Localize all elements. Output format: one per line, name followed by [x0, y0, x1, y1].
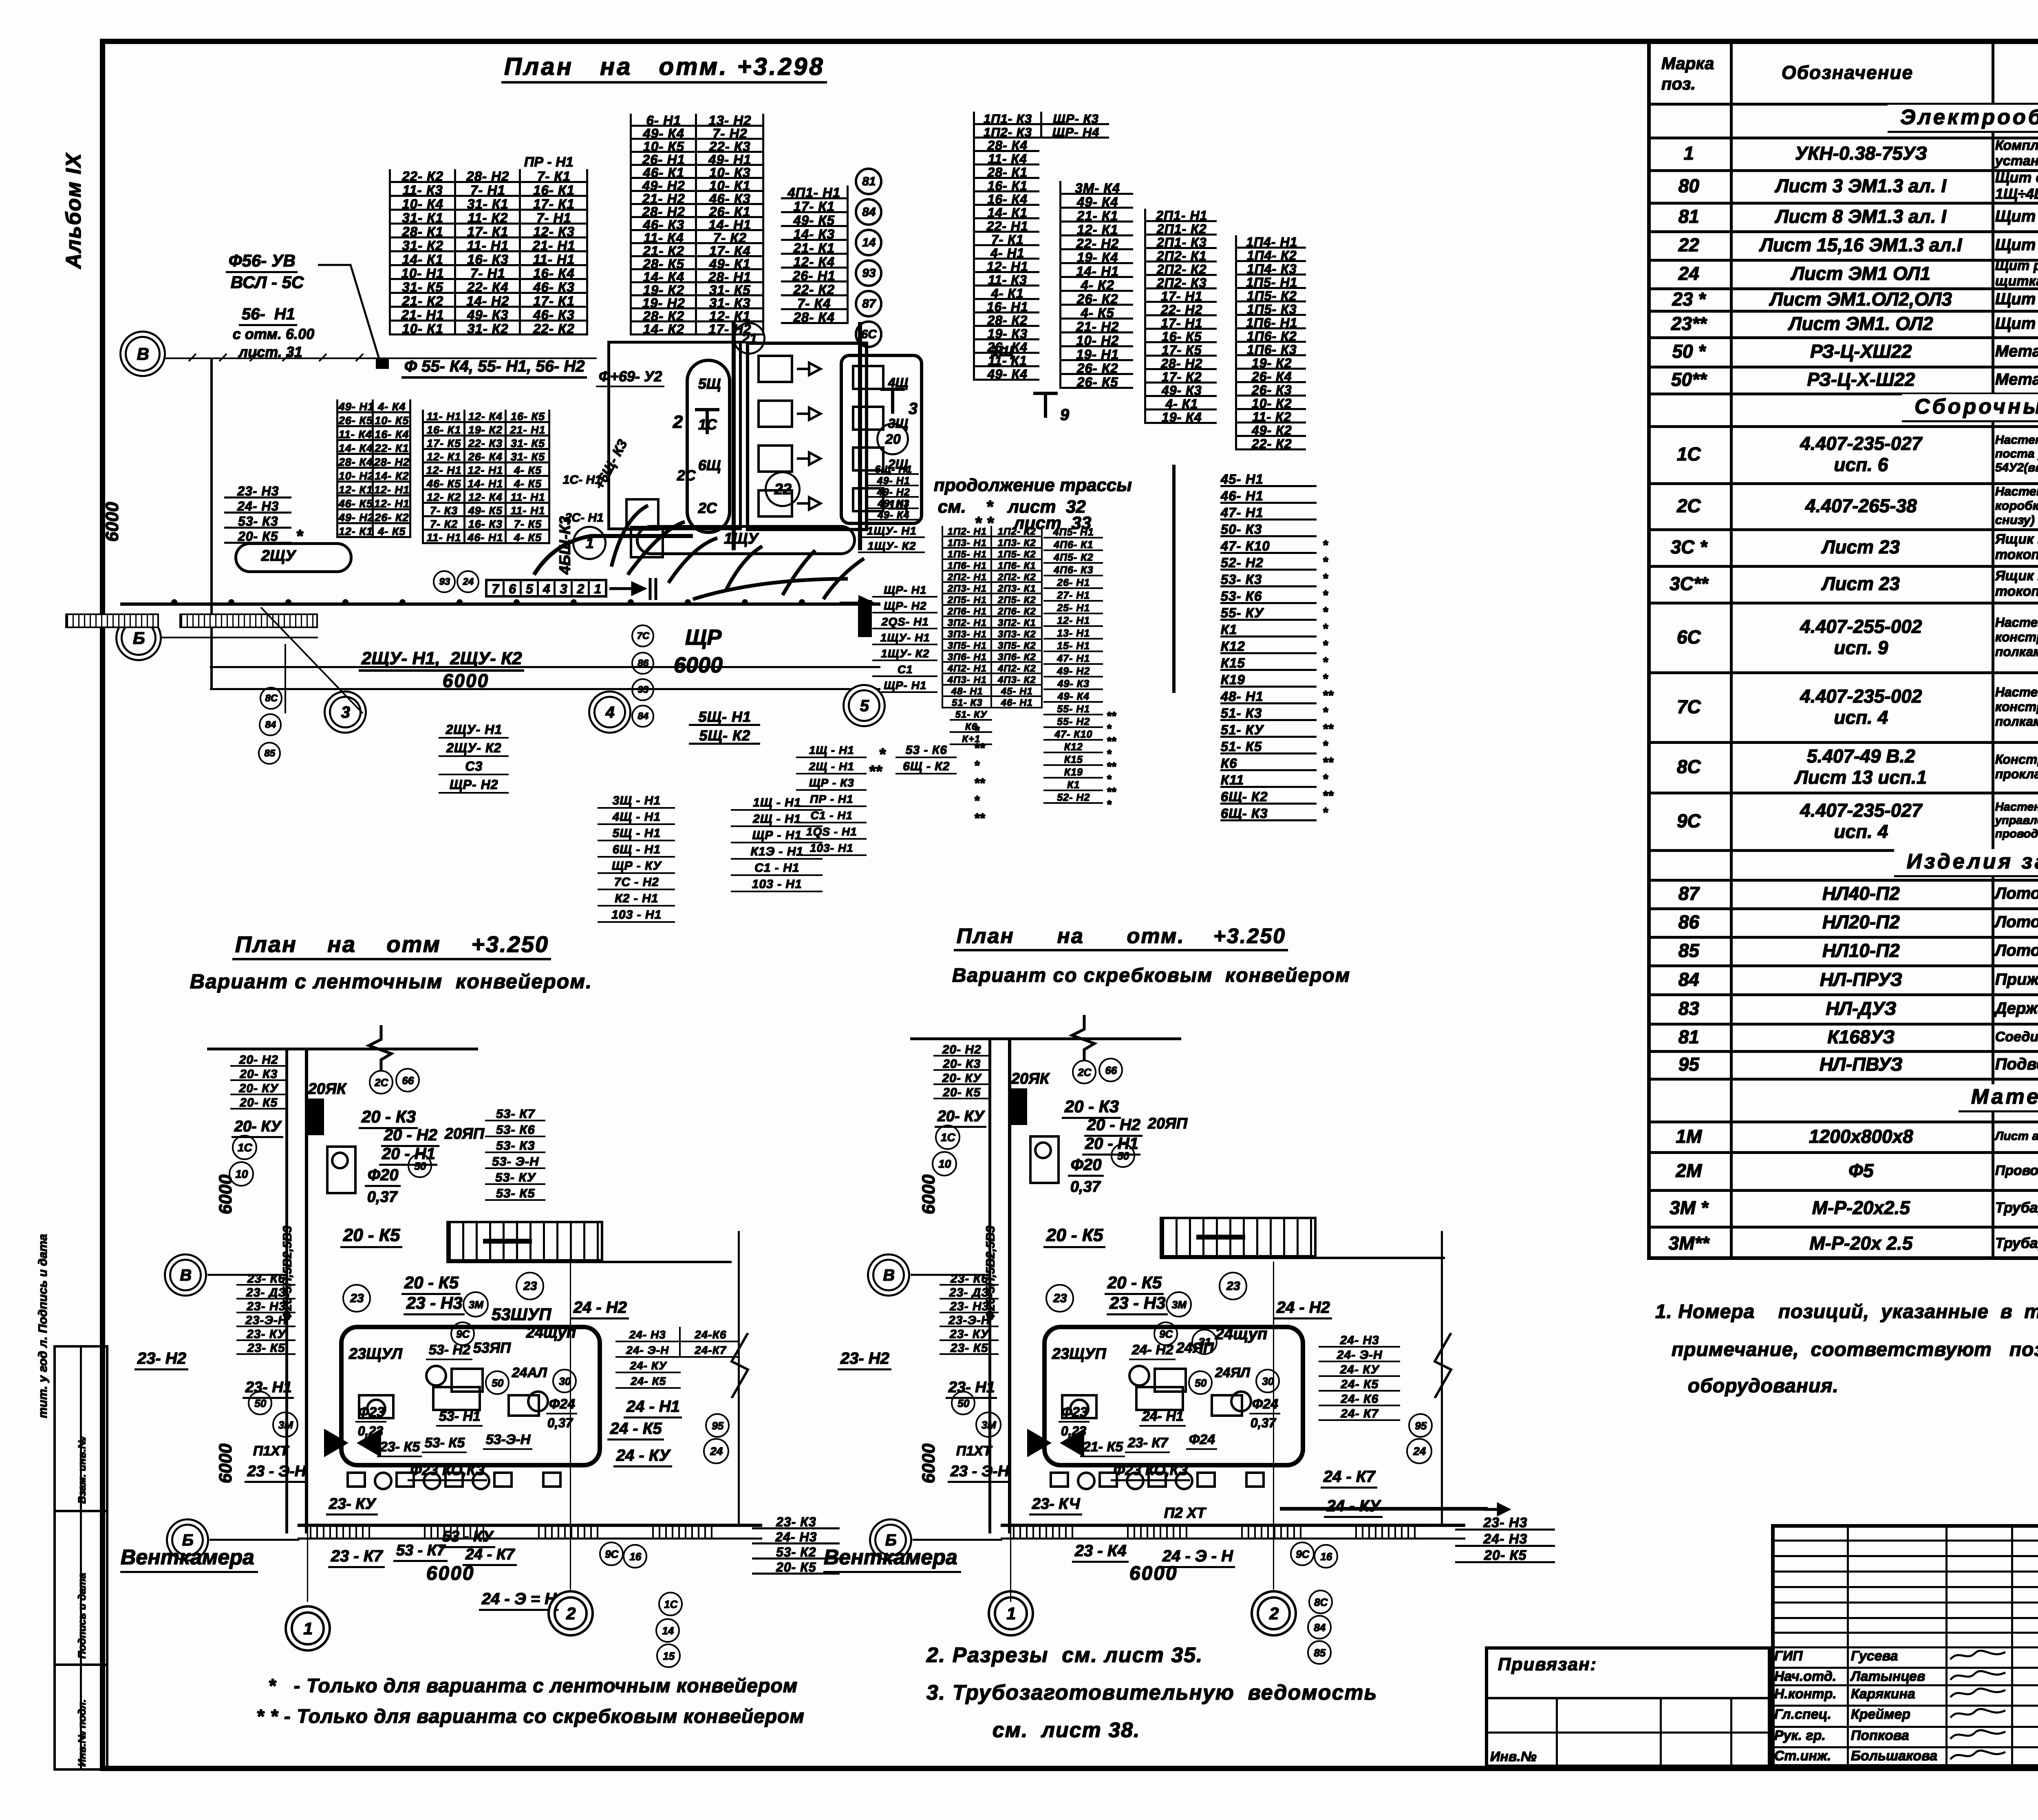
- stars beside 45 list: [1323, 537, 1328, 553]
- label 20YaP: [444, 1125, 484, 1143]
- wall line lower 2: [210, 688, 880, 690]
- label 20YaP: [1147, 1115, 1187, 1132]
- axis circle B: [121, 620, 157, 656]
- staircase: [1160, 1217, 1317, 1257]
- circle 2C pair: [1072, 1060, 1096, 1084]
- diagonal break right: [723, 1333, 756, 1398]
- circle 1 pos: [572, 526, 607, 560]
- margin text Album IX: [61, 153, 86, 269]
- circle 9C 16 pair: [599, 1542, 624, 1566]
- circle 84b: [631, 705, 654, 728]
- label 20-K3: [359, 1107, 418, 1129]
- vertical cable label: [280, 1226, 294, 1321]
- label 23-KUb: [326, 1495, 378, 1516]
- machine inner boxes: [1154, 1368, 1187, 1393]
- axis circle 1: [291, 1611, 325, 1646]
- kiosk box 2C-N1: [630, 526, 664, 558]
- dim 6000 upper: [918, 1175, 939, 1215]
- spec row 9С: [1647, 792, 1730, 849]
- cable stack 53- right: [485, 1105, 545, 1201]
- label F55-K4 55-N1 56-N2: [401, 357, 587, 379]
- cable schedule table T3: [781, 185, 849, 324]
- stack 1ShchU pair: [858, 523, 925, 553]
- axis vertical thin lines: [307, 1048, 308, 1602]
- label 23-E-N: [245, 1463, 308, 1483]
- axis circle 1: [994, 1596, 1028, 1630]
- spec row 1: [1647, 137, 1730, 169]
- stack 6Shch-N1 49 list: [868, 463, 919, 521]
- circle 10: [229, 1161, 254, 1187]
- axis circle 3: [329, 696, 362, 728]
- circle 23b: [1219, 1272, 1247, 1300]
- panel 2 inner boxes: [757, 355, 793, 383]
- right boundary vline: [1441, 1231, 1443, 1524]
- kiosk box 1C-N1: [625, 498, 659, 531]
- inv no label: [1490, 1749, 1536, 1765]
- axis circle V: [125, 336, 161, 372]
- machine room outline: [1042, 1325, 1305, 1467]
- circle 50c: [1188, 1370, 1213, 1395]
- circle 3M: [463, 1291, 489, 1317]
- circle 20: [876, 423, 909, 455]
- vertical label 4BShch-K3: [556, 516, 574, 575]
- wall hatch band 1: [65, 613, 159, 628]
- spec section Электрооборудование: [1652, 104, 2038, 133]
- label 24-N2: [571, 1298, 629, 1319]
- cable schedule table D: [1144, 209, 1217, 424]
- label P1XT: [253, 1443, 288, 1459]
- margin stamp strip: [53, 1345, 108, 1771]
- circle 22: [765, 471, 801, 507]
- circle 21: [733, 322, 765, 355]
- label 24-KU r: [1324, 1497, 1383, 1518]
- label F20 037: [1068, 1156, 1104, 1177]
- title block outer border: [1771, 1524, 2038, 1768]
- circle 3M: [1166, 1291, 1192, 1317]
- leader line to junction square: [314, 261, 383, 363]
- tail of mid table: [950, 708, 992, 745]
- spec row 81: [1647, 1023, 1730, 1050]
- label ShchR 6000: [685, 624, 721, 650]
- panel room outer rect: [607, 341, 742, 530]
- stack 1Shch-N1 left: [796, 742, 867, 856]
- circle 50c: [485, 1370, 509, 1395]
- axis circle B bottom: [171, 1524, 204, 1556]
- circle 8C 84 85 column plan3: [1308, 1590, 1333, 1614]
- circle 7C: [631, 624, 654, 647]
- stack 2ShchU list: [439, 720, 509, 794]
- spec row 3С *: [1647, 528, 1730, 565]
- label 24schup: [1215, 1325, 1267, 1343]
- label 23-N1: [946, 1379, 997, 1399]
- margin small vertical text: [36, 1234, 50, 1418]
- circle 1C 14 15 column: [658, 1592, 683, 1616]
- label 2ShchU: [261, 547, 295, 565]
- label 20-KU: [232, 1118, 283, 1138]
- bottom feet row: [346, 1471, 366, 1488]
- spec row 95: [1647, 1050, 1730, 1078]
- note 2 razrezy: [926, 1643, 1203, 1667]
- circle 30: [552, 1369, 577, 1393]
- label 20-N2: [1084, 1116, 1143, 1137]
- spec row 6С: [1647, 602, 1730, 671]
- circle 93b: [631, 678, 654, 701]
- stack ShchR column: [872, 582, 937, 693]
- leader lines to axis circles: [228, 603, 514, 758]
- spec row 3М *: [1647, 1189, 1730, 1226]
- black wedge 2: [1025, 1427, 1054, 1459]
- label 20-N1: [379, 1145, 437, 1166]
- bottom wall hatch segments: [310, 1527, 371, 1538]
- circle 30: [1255, 1369, 1280, 1393]
- panel block 2: [746, 342, 868, 531]
- label 24-K7 r: [1321, 1467, 1377, 1489]
- bottom wall double line: [1001, 1524, 1465, 1527]
- left cable stack 20-: [933, 1042, 990, 1099]
- tall list 45-N1: [1220, 470, 1317, 821]
- plan 3 subtitle: [952, 964, 1350, 986]
- circle 50a: [951, 1391, 975, 1415]
- label 20-K3: [1062, 1096, 1121, 1119]
- spec row 81: [1647, 202, 1730, 230]
- left cable stack 23-: [940, 1272, 999, 1355]
- spec row 3М**: [1647, 1226, 1730, 1260]
- Ventkamera label: [823, 1545, 961, 1573]
- spec row 3С**: [1647, 565, 1730, 602]
- Ventkamera label: [120, 1545, 258, 1573]
- stars column right: [974, 723, 979, 739]
- continuation note big: [933, 475, 1131, 495]
- stars beside third column: [1107, 709, 1116, 723]
- panel bundle rounded 1: [686, 359, 731, 534]
- label 20YaK: [308, 1080, 346, 1098]
- note 1 under table: [1655, 1300, 2038, 1323]
- label 23-K5b: [1080, 1439, 1125, 1457]
- circle 1C: [232, 1135, 257, 1160]
- label 2C: [677, 467, 695, 484]
- spec row 23 *: [1647, 287, 1730, 310]
- label 2C-N1: [565, 511, 603, 525]
- spec row 84: [1647, 964, 1730, 993]
- circle 95: [1408, 1413, 1433, 1438]
- axis circle V bottom: [872, 1259, 905, 1291]
- rounded bundle 1ShchU: [636, 525, 856, 555]
- bottom right cable stack: [752, 1514, 840, 1575]
- circle 23b: [516, 1272, 544, 1300]
- spec section Сборочные единицы: [1652, 394, 2038, 422]
- stack 5Shch: [689, 707, 760, 745]
- spec row 50 *: [1647, 336, 1730, 366]
- bottom plan 3 title: [954, 924, 1288, 951]
- cable schedule table T2: [630, 114, 764, 335]
- label 20-N1: [1082, 1134, 1140, 1156]
- motor box: [326, 1145, 357, 1194]
- label 23-K5b: [377, 1439, 422, 1457]
- left cable stack 23-: [236, 1272, 296, 1355]
- bottom right cable stack: [1455, 1514, 1555, 1563]
- wall line right of stair: [1160, 1257, 1445, 1259]
- axis vertical thin lines: [1010, 1037, 1011, 1602]
- axis line B: [161, 637, 318, 638]
- wall line right of stair: [446, 1261, 732, 1263]
- spec row 22: [1647, 230, 1730, 259]
- thick cable risers: [732, 322, 736, 550]
- circle 8C column: [260, 687, 282, 710]
- rounded bundle 2ShchU: [234, 542, 353, 573]
- label 23-N2: [135, 1349, 188, 1370]
- circle 3M2: [272, 1412, 298, 1438]
- circle 9C in: [1154, 1321, 1178, 1346]
- circle 2C pair: [369, 1070, 393, 1094]
- spec table header: [1661, 53, 1714, 94]
- circle 31 plan3: [1191, 1329, 1218, 1355]
- cable schedule table L2: [336, 399, 411, 538]
- black wedge: [308, 1099, 324, 1135]
- thick bundle bottom run: [530, 518, 701, 583]
- vertical cable label: [984, 1226, 997, 1321]
- label 20-K5 2: [401, 1273, 461, 1295]
- spec section Материалы: [1652, 1079, 2038, 1117]
- circle 9C 16 pair: [1290, 1542, 1315, 1566]
- left cable stack 20-: [230, 1052, 287, 1110]
- right boundary vline: [738, 1231, 740, 1524]
- bottom labels: [328, 1547, 385, 1568]
- label PR-N1: [524, 154, 573, 170]
- label 20-K5 mid: [340, 1225, 402, 1248]
- cable schedule table B header: [973, 112, 1109, 139]
- bottom plan 2 title: [232, 931, 551, 960]
- T symbol T3: [878, 385, 907, 418]
- big mid table 1P2: [942, 526, 1043, 708]
- circle 23a: [342, 1284, 371, 1313]
- label 23-E-N: [948, 1463, 1011, 1483]
- strip arrow right: [609, 575, 662, 603]
- title block signatures: [1774, 1648, 1802, 1664]
- machine inner boxes: [450, 1368, 484, 1393]
- cable schedule table L1: [224, 483, 291, 544]
- spec row 1С: [1647, 425, 1730, 482]
- top plan title: [501, 52, 827, 84]
- T symbol 2: [673, 412, 682, 432]
- spec row 83: [1647, 993, 1730, 1023]
- spec row 50**: [1647, 366, 1730, 393]
- bottom plan lent top boundary: [207, 1048, 478, 1050]
- dim 6000 bottom: [1129, 1562, 1178, 1584]
- bottom feet row: [1050, 1471, 1069, 1488]
- label F20 037: [365, 1166, 401, 1187]
- wall line lower 1: [210, 666, 880, 668]
- bottom plan skreb top boundary: [910, 1037, 1181, 1040]
- label 24-N1: [624, 1397, 682, 1418]
- label 23-N3: [404, 1293, 465, 1315]
- T symbol T9: [1031, 389, 1060, 422]
- black wedge 3: [1058, 1427, 1086, 1459]
- cable schedule table B list: [973, 139, 1039, 381]
- dim 6000 below: [442, 669, 489, 691]
- axis circle 4: [593, 696, 626, 728]
- label F23 KO K3: [1111, 1461, 1190, 1481]
- circle 9C in: [450, 1321, 475, 1346]
- label 20YaK: [1011, 1070, 1049, 1088]
- circle 10: [932, 1151, 957, 1176]
- spec row 2С: [1647, 482, 1730, 528]
- axis tick marks: [188, 353, 196, 362]
- dim 6000 upper: [215, 1175, 236, 1215]
- junction dot row on wall: [171, 599, 177, 605]
- circle 1C: [935, 1125, 960, 1150]
- bottom wall double line: [298, 1524, 762, 1527]
- labels inside machine room: [1052, 1345, 1106, 1363]
- spec row 8С: [1647, 741, 1730, 792]
- vertical label 6Shch-K3: [591, 437, 631, 493]
- axis circle 2: [554, 1596, 588, 1630]
- labels inside machine room: [348, 1345, 402, 1363]
- dim 6000 lower: [918, 1444, 939, 1484]
- black wedge 3: [355, 1427, 383, 1459]
- position circles column: [855, 168, 882, 195]
- cable schedule table E: [1235, 235, 1306, 450]
- label F+69-U2: [596, 368, 664, 387]
- label 1Shch: [990, 342, 1013, 360]
- machine room outline: [339, 1325, 602, 1467]
- label 1ShchU: [723, 530, 758, 547]
- circle 95: [705, 1413, 730, 1438]
- label 24-K5: [607, 1419, 664, 1441]
- circle 50a: [248, 1391, 272, 1415]
- label 2ShchU-N1 2ShchU-K2: [359, 648, 524, 672]
- stack 1Shch tall: [731, 794, 823, 892]
- spec row 80: [1647, 169, 1730, 202]
- ShchR distribution strip: [485, 579, 607, 598]
- spec row 1М: [1647, 1121, 1730, 1151]
- dim 6000 vertical: [102, 502, 122, 542]
- label 20-KU: [935, 1107, 986, 1128]
- axis line V: [165, 357, 597, 359]
- right cable table: [1319, 1333, 1400, 1421]
- label F56-UV / VSL-5S: [226, 251, 298, 273]
- stack 3Shch tall: [598, 792, 675, 923]
- dim 6000 lower: [215, 1444, 236, 1484]
- label 20-K5 2: [1105, 1273, 1164, 1295]
- staircase: [446, 1221, 603, 1262]
- label 1C-N1: [562, 473, 601, 487]
- motor box: [1029, 1135, 1060, 1184]
- black square junction: [376, 357, 389, 369]
- circle 86: [631, 652, 654, 675]
- black wedge: [1011, 1088, 1027, 1125]
- circle 50b: [1111, 1143, 1135, 1168]
- diagonal break right: [1427, 1333, 1459, 1398]
- label 53ShchUP: [491, 1304, 551, 1324]
- spec row 24: [1647, 259, 1730, 287]
- dim 6000 bottom: [426, 1562, 474, 1584]
- note star 1: [268, 1674, 797, 1697]
- spec row 2М: [1647, 1151, 1730, 1189]
- wire bundle arcs: [587, 444, 954, 615]
- circle 93 24 pair: [433, 570, 456, 593]
- label 20-K5 mid: [1043, 1225, 1105, 1248]
- cable schedule table T1: [389, 169, 588, 335]
- stack 53-K6 pair: [895, 742, 957, 774]
- wall vertical left: [210, 359, 213, 689]
- label 56-N1 / s otm 6.00 / list 31: [239, 305, 297, 326]
- circle 24: [703, 1438, 729, 1464]
- spec row 85: [1647, 936, 1730, 964]
- black bar junction: [858, 600, 872, 637]
- left wall lines: [988, 1037, 991, 1533]
- spec row 86: [1647, 907, 1730, 936]
- left wall lines: [285, 1048, 288, 1533]
- wall arrows: [840, 591, 889, 615]
- main wall line: [120, 602, 880, 606]
- bottom wall hatch segments: [1013, 1527, 1074, 1538]
- privyazan box: [1485, 1646, 1771, 1768]
- note star 2: [256, 1705, 804, 1727]
- plan 2 subtitle: [190, 969, 592, 993]
- panel block 3 rounded: [840, 354, 923, 525]
- axis circle 2: [1257, 1596, 1291, 1630]
- circle 24: [1406, 1438, 1432, 1464]
- panel 3 inner boxes: [852, 365, 884, 390]
- plan3 long feeder line: [1280, 1507, 1488, 1511]
- label 23-N3: [1107, 1293, 1168, 1315]
- label P1XT: [956, 1443, 991, 1459]
- specification table grid: [1647, 40, 2038, 1260]
- black wedge 2: [322, 1427, 351, 1459]
- spec row 7С: [1647, 671, 1730, 741]
- right cable table: [615, 1327, 740, 1358]
- wall hatch band 2: [179, 613, 318, 628]
- title block signature grid: [1847, 1524, 1849, 1768]
- label 20-N2: [381, 1126, 439, 1147]
- label 23-N2: [838, 1349, 891, 1370]
- label 23-KUb: [1029, 1495, 1082, 1516]
- circle 3M2: [975, 1412, 1001, 1438]
- spec row 87: [1647, 879, 1730, 907]
- spec row 23**: [1647, 310, 1730, 336]
- axis circle 5: [848, 689, 880, 722]
- cable schedule table L3: [422, 410, 550, 544]
- label 24-K4: [613, 1446, 672, 1467]
- third column 4P5: [1043, 526, 1103, 804]
- label F23 KO K3: [408, 1461, 487, 1481]
- label 24-N2: [1274, 1298, 1332, 1319]
- circle 23a: [1045, 1284, 1074, 1313]
- bottom labels: [1072, 1542, 1129, 1563]
- axis circle V bottom: [169, 1259, 202, 1291]
- circle 50b: [408, 1154, 432, 1178]
- label 23-N1: [243, 1379, 294, 1399]
- axis circle B bottom: [874, 1524, 907, 1556]
- spec section Изделия заводов ГЭМ: [1652, 851, 2038, 876]
- cable schedule table C: [1059, 181, 1133, 389]
- note 3 truba: [926, 1680, 1377, 1705]
